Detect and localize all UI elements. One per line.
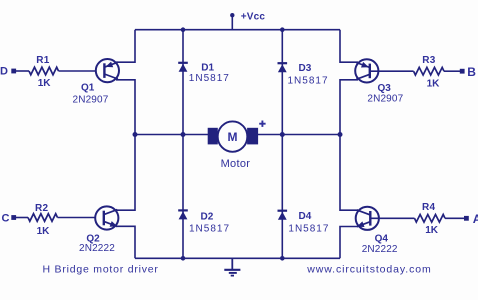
svg-text:1K: 1K <box>37 226 51 237</box>
svg-text:Motor: Motor <box>221 158 251 170</box>
svg-text:1K: 1K <box>425 225 439 236</box>
svg-text:1N5817: 1N5817 <box>189 223 230 234</box>
resistor R3 <box>414 67 444 75</box>
transistor Q4 (NPN) <box>356 207 379 230</box>
svg-text:+Vcc: +Vcc <box>241 12 266 23</box>
transistor Q3 (PNP) <box>355 59 378 82</box>
junction: D2 / bottom rail <box>181 256 186 261</box>
junction: D1 / top rail <box>181 27 186 32</box>
svg-text:1K: 1K <box>38 78 52 89</box>
svg-text:H Bridge motor driver: H Bridge motor driver <box>43 264 159 276</box>
junction: D4 / bottom rail <box>280 256 285 261</box>
svg-text:R1: R1 <box>36 55 49 66</box>
wire: +Vcc top rail <box>135 29 340 31</box>
junction: D1-D2 / motor row <box>181 132 186 137</box>
wire: motor row <box>135 134 340 136</box>
wire: top rail to Q1 emitter <box>116 30 135 63</box>
svg-text:2N2222: 2N2222 <box>79 243 115 254</box>
wire: Q3 collector / right motor node / Q4 collector <box>340 80 358 210</box>
wire: R1 to Q1 base <box>59 70 105 72</box>
wire: Q4 emitter to ground rail <box>340 227 358 259</box>
ground symbol <box>224 258 240 275</box>
wire: D4 branch <box>281 135 283 259</box>
svg-text:1N5817: 1N5817 <box>189 73 230 84</box>
diode D3 <box>278 63 288 72</box>
svg-text:R3: R3 <box>422 55 435 66</box>
resistor R4 <box>415 215 446 223</box>
svg-text:1N5817: 1N5817 <box>288 224 329 235</box>
transistor Q2 (NPN) <box>95 206 118 229</box>
wire: R3 to B terminal <box>444 70 460 72</box>
svg-text:A: A <box>473 212 478 226</box>
svg-text:D2: D2 <box>201 211 214 222</box>
svg-text:Q1: Q1 <box>81 83 95 94</box>
junction: D3 / top rail <box>280 27 285 32</box>
wire: Q4 base to R4 <box>370 217 414 219</box>
wire: D terminal to R1 <box>16 70 29 72</box>
svg-text:2N2907: 2N2907 <box>73 94 109 105</box>
svg-text:R4: R4 <box>422 202 435 213</box>
svg-text:2N2907: 2N2907 <box>367 94 403 105</box>
terminal square: input C <box>11 215 16 220</box>
svg-text:Q3: Q3 <box>378 83 392 94</box>
wire: R4 to A terminal <box>445 217 464 219</box>
diode D2 <box>178 210 188 219</box>
diode D1 <box>178 63 188 72</box>
svg-text:D1: D1 <box>201 62 214 73</box>
svg-text:R2: R2 <box>35 203 48 214</box>
diode D4 <box>278 211 288 220</box>
wire: Q1 collector / left motor node / Q2 collector <box>116 80 135 210</box>
polarity + (motor) <box>259 121 265 127</box>
wire: +Vcc stub <box>231 15 233 30</box>
node: +Vcc terminal dot <box>230 13 234 17</box>
svg-text:D: D <box>0 65 8 77</box>
svg-text:2N2222: 2N2222 <box>362 244 398 255</box>
wire: C terminal to R2 <box>16 217 28 219</box>
wire: D1 branch <box>182 30 184 135</box>
svg-text:C: C <box>2 212 10 224</box>
terminal square: input D <box>11 69 16 74</box>
svg-text:M: M <box>228 130 238 144</box>
svg-text:www.circuitstoday.com: www.circuitstoday.com <box>306 263 431 275</box>
transistor Q1 (PNP) <box>96 59 119 82</box>
junction: right bridge / motor row <box>338 132 343 137</box>
wire: D2 branch <box>182 135 184 259</box>
resistor R1 <box>29 67 59 75</box>
wire: top rail to Q3 emitter <box>340 30 358 63</box>
svg-text:1N5817: 1N5817 <box>288 76 329 87</box>
junction: left bridge / motor row <box>133 132 138 137</box>
terminal square: output A <box>464 216 469 221</box>
svg-text:B: B <box>467 65 476 79</box>
wire: ground bottom rail <box>135 257 340 259</box>
svg-text:1K: 1K <box>427 79 441 90</box>
wire: Q2 emitter to ground rail <box>116 226 135 258</box>
wire: R2 to Q2 base <box>58 217 104 219</box>
svg-text:D3: D3 <box>299 63 312 74</box>
resistor R2 <box>28 214 58 222</box>
motor M1 <box>208 121 258 151</box>
svg-text:D4: D4 <box>299 211 312 222</box>
junction: D3-D4 / motor row <box>280 132 285 137</box>
wire: D3 branch <box>281 30 283 135</box>
terminal square: output B <box>460 69 465 74</box>
wire: Q3 base to R3 <box>370 70 414 72</box>
